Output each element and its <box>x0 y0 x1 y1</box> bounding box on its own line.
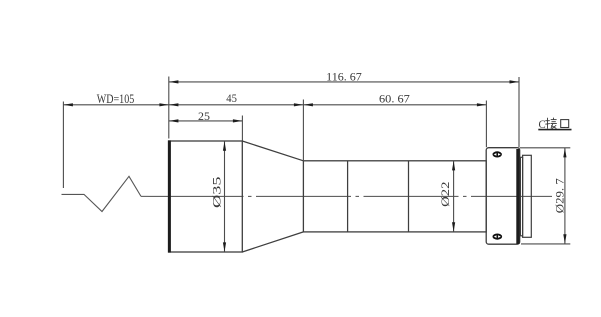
svg-text:45: 45 <box>226 93 237 105</box>
cone taper top edge <box>242 141 303 161</box>
dimension text WD=105 <box>97 92 135 106</box>
optical axis centerline <box>141 195 552 197</box>
label C-mount interface: C <box>539 117 546 131</box>
svg-text:60. 67: 60. 67 <box>379 93 410 105</box>
svg-text:WD=105: WD=105 <box>97 92 135 106</box>
extension line left (object plane) <box>62 102 64 189</box>
dimension text 116.67 <box>326 71 362 83</box>
C-mount thread barrel <box>523 155 532 237</box>
screw top <box>493 151 502 157</box>
dimension line 60.67 <box>303 103 486 106</box>
svg-text:25: 25 <box>198 111 210 123</box>
mount flange body <box>486 148 520 245</box>
dimension line 116.67 <box>169 80 519 83</box>
dimension line dia35 <box>223 141 226 252</box>
dimension text 45 <box>226 93 237 105</box>
dimension line dia22 <box>452 161 455 232</box>
svg-text:Ø22: Ø22 <box>440 181 452 207</box>
extension line flange right <box>518 77 520 147</box>
cone taper bottom edge <box>242 232 303 252</box>
dimension text 25 <box>198 111 210 123</box>
tube section line 2 <box>408 161 410 232</box>
dimension text dia22 <box>440 181 452 207</box>
dimension text 60.67 <box>379 93 410 105</box>
dimension text dia29.7 <box>555 178 567 213</box>
lock ring <box>520 157 522 236</box>
label C-mount interface: glyph jie (接) <box>545 118 557 129</box>
extension line lens front <box>168 77 170 139</box>
barrel front face thick edge <box>168 140 171 252</box>
main tube body <box>303 161 486 232</box>
extension line 45mm / tube start <box>302 100 304 161</box>
lens front barrel body <box>169 141 243 252</box>
screw bottom <box>493 234 503 240</box>
svg-text:Ø29. 7: Ø29. 7 <box>555 178 567 213</box>
dimension line 45 <box>169 103 304 106</box>
extension line 25mm <box>241 116 243 141</box>
object plane zigzag break line <box>62 176 142 211</box>
label C-mount interface: glyph kou (口) <box>561 120 569 128</box>
tube section line 1 <box>347 161 349 232</box>
svg-text:Ø35: Ø35 <box>212 176 224 208</box>
svg-text:C: C <box>539 117 546 131</box>
extension line dia29.7 bottom <box>521 243 570 245</box>
flange right thick edge <box>516 149 519 244</box>
extension line dia29.7 top <box>520 147 571 149</box>
dimension line dia29.7 <box>563 148 566 244</box>
dimension line WD=105 <box>63 103 168 106</box>
dimension text dia35 <box>212 176 224 208</box>
label C-mount interface underline <box>538 129 571 131</box>
dimension line 25 <box>169 119 243 122</box>
svg-text:116. 67: 116. 67 <box>326 71 362 83</box>
extension line flange left <box>485 101 487 148</box>
